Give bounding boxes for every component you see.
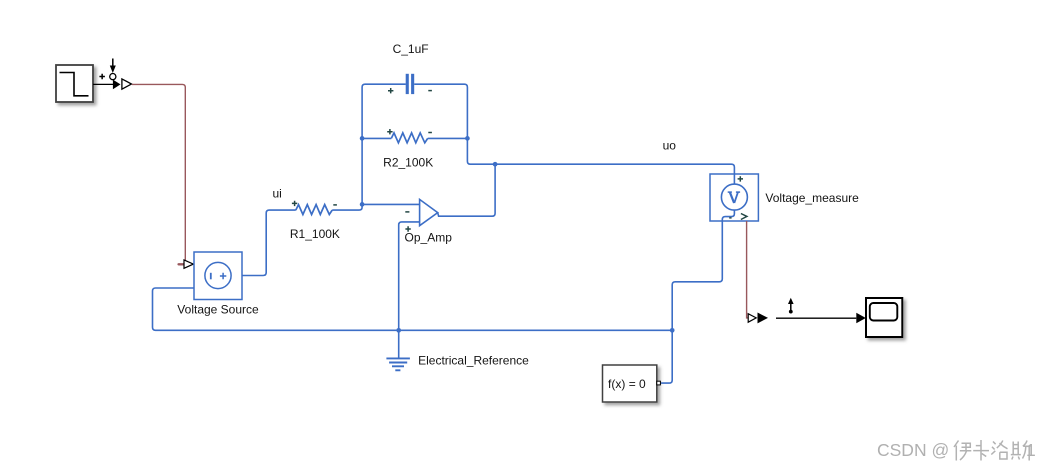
svg-text:uo: uo [663,139,677,153]
svg-text:R2_100K: R2_100K [383,155,433,169]
svg-text:1: 1 [1026,440,1036,460]
svg-text:Op_Amp: Op_Amp [405,231,453,245]
svg-text:f(x) = 0: f(x) = 0 [608,377,646,391]
svg-text:CSDN @: CSDN @ [877,440,949,460]
svg-text:Voltage_measure: Voltage_measure [765,191,859,205]
svg-text:C_1uF: C_1uF [393,42,429,56]
svg-text:Electrical_Reference: Electrical_Reference [418,353,529,367]
svg-text:ui: ui [273,186,282,200]
svg-text:R1_100K: R1_100K [290,227,340,241]
svg-text:Voltage Source: Voltage Source [177,303,259,317]
